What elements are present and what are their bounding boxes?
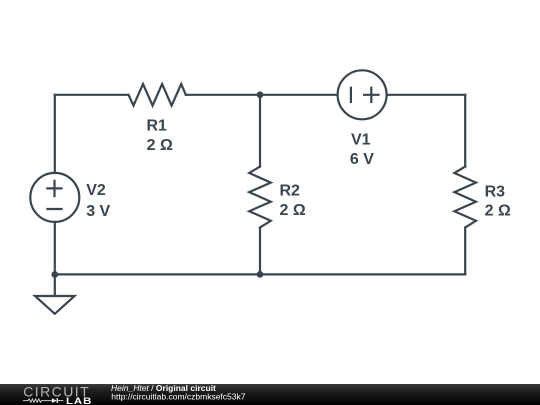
wire right vertical top (corner to R3): [464, 95, 466, 167]
ground node junction dot: [51, 271, 58, 278]
voltage source V2 circle: [30, 173, 79, 222]
footer black bar: [0, 384, 540, 405]
wire R1 to node B: [186, 94, 260, 96]
V2 minus mark: [46, 208, 62, 210]
svg-text:6 V: 6 V: [350, 151, 374, 168]
voltage source V1 circle: [338, 70, 387, 119]
wire top-left horizontal (node A to R1): [55, 94, 129, 96]
wire right vertical bottom (R3 to bottom-right corner): [464, 228, 466, 275]
ground symbol triangle: [35, 296, 75, 314]
wire node B to V1 minus terminal: [260, 94, 338, 96]
footer bar background: [0, 384, 540, 405]
svg-text:R1: R1: [146, 118, 167, 135]
wire left vertical bottom (V2 to ground node): [54, 222, 56, 275]
wire bottom horizontal: [55, 273, 465, 275]
wire left vertical top (corner to V2): [54, 95, 56, 173]
svg-text:2 Ω: 2 Ω: [147, 137, 173, 154]
svg-text:2 Ω: 2 Ω: [485, 202, 511, 219]
svg-text:R2: R2: [280, 183, 301, 200]
node B junction dot: [257, 91, 264, 98]
svg-text:V2: V2: [86, 182, 106, 199]
node C junction dot: [257, 271, 264, 278]
resistor R1: [129, 84, 186, 106]
wire middle vertical bottom (R2 to node C): [259, 228, 261, 275]
svg-text:V1: V1: [351, 131, 371, 148]
resistor R3: [454, 167, 476, 228]
svg-text:R3: R3: [485, 183, 506, 200]
svg-text:3 V: 3 V: [86, 203, 110, 220]
wire middle vertical top (node B to R2): [259, 95, 261, 167]
ground stub wire: [54, 274, 56, 294]
V1 plus mark: [363, 87, 380, 103]
svg-text:LAB: LAB: [66, 397, 92, 405]
logo diode: [52, 398, 57, 403]
resistor R2: [249, 167, 271, 228]
V1 minus mark: [350, 87, 352, 103]
wire V1 plus terminal to top-right corner: [387, 94, 465, 96]
V2 plus mark: [46, 180, 62, 197]
svg-text:http://circuitlab.com/czbmksef: http://circuitlab.com/czbmksefc53k7: [111, 391, 245, 401]
logo resistor zigzag: [23, 399, 52, 402]
svg-text:2 Ω: 2 Ω: [280, 202, 306, 219]
